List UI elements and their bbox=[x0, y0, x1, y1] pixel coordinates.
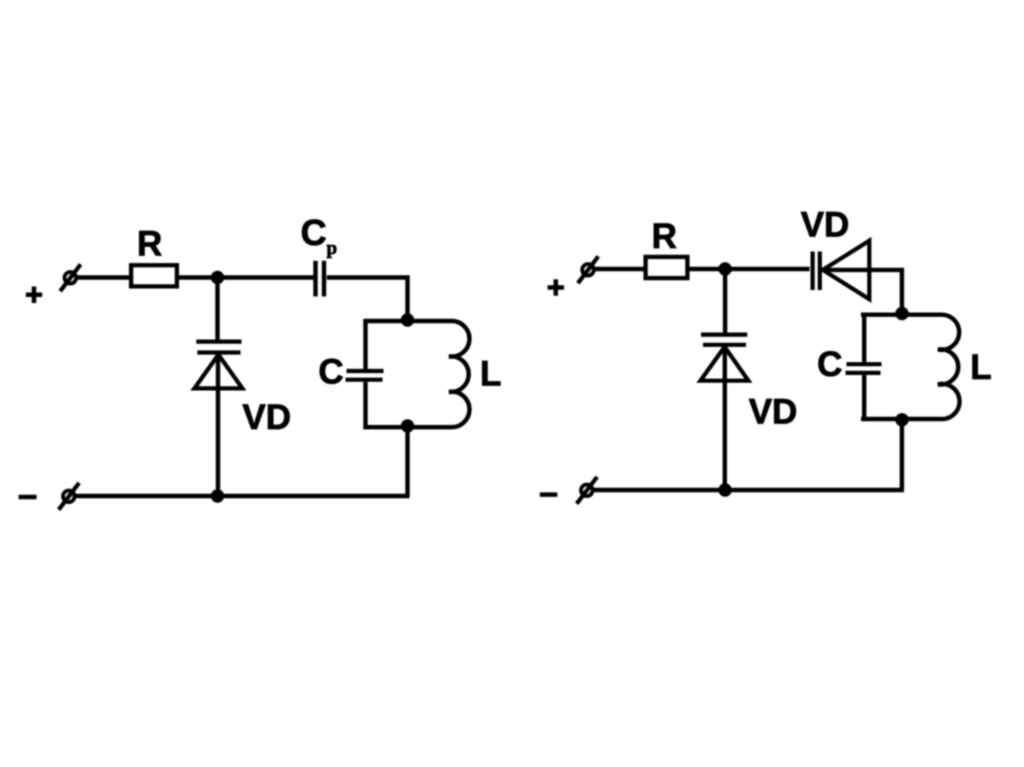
tank top wire (right) bbox=[861, 313, 941, 317]
svg-text:p: p bbox=[327, 238, 338, 259]
wire tank bottom to rail bbox=[405, 427, 409, 496]
varicap VD branch top wire (right) bbox=[723, 269, 727, 335]
tank bottom wire bbox=[364, 425, 452, 429]
capacitor C branch wire lower bbox=[363, 382, 367, 430]
junction node dot (top left) bbox=[211, 271, 224, 284]
plus terminal label + bbox=[26, 287, 42, 304]
input terminal (+) circle with slash bbox=[60, 264, 80, 291]
capacitor C branch wire upper bbox=[363, 319, 367, 369]
capacitor C plates (right) bbox=[846, 364, 882, 373]
bottom rail junction dot (right) bbox=[718, 483, 731, 496]
svg-text:VD: VD bbox=[801, 206, 850, 245]
output terminal (-) circle with slash (right) bbox=[577, 477, 597, 504]
wire resistor to Cp bbox=[179, 275, 314, 279]
bottom rail wire bbox=[76, 494, 410, 498]
svg-text:VD: VD bbox=[749, 393, 798, 432]
label Cp bbox=[301, 212, 337, 259]
tank bottom wire (right) bbox=[861, 417, 941, 421]
svg-text:L: L bbox=[480, 354, 501, 393]
capacitor C branch upper (right) bbox=[862, 313, 866, 363]
series varicap VD plates bbox=[813, 252, 820, 291]
svg-text:C: C bbox=[301, 212, 327, 253]
capacitor C branch lower (right) bbox=[862, 375, 866, 421]
varicap VD triangle (right) bbox=[700, 347, 748, 381]
plus terminal label + (right) bbox=[548, 279, 564, 295]
wire terminal to resistor bbox=[76, 275, 132, 279]
minus terminal label - bbox=[19, 495, 37, 500]
wire terminal to resistor (right) bbox=[594, 267, 646, 271]
wire resistor to varicap (right) bbox=[690, 267, 810, 271]
junction node dot (right top) bbox=[718, 262, 731, 275]
input terminal (+) circle with slash (right) bbox=[578, 256, 598, 283]
svg-text:R: R bbox=[137, 224, 162, 263]
varicap VD cathode bars (right) bbox=[701, 335, 747, 345]
capacitor C plates bbox=[346, 371, 384, 380]
resistor R bbox=[131, 265, 177, 286]
varicap VD bottom wire (right) bbox=[723, 347, 727, 490]
tank top wire bbox=[364, 319, 452, 323]
bottom rail junction dot bbox=[211, 489, 224, 502]
bottom rail wire (right) bbox=[594, 488, 904, 492]
svg-text:VD: VD bbox=[242, 398, 291, 437]
varicap VD triangle bbox=[194, 355, 242, 389]
tank bottom node dot bbox=[401, 419, 414, 432]
svg-text:C: C bbox=[817, 345, 842, 384]
series varicap VD wire through bbox=[822, 270, 902, 316]
output terminal (-) circle with slash bbox=[59, 483, 79, 510]
tank bottom node dot (right) bbox=[895, 413, 908, 426]
wire tank bottom to rail (right) bbox=[900, 419, 904, 490]
tank top node dot bbox=[401, 313, 414, 326]
svg-text:L: L bbox=[970, 348, 991, 387]
varicap VD branch top wire bbox=[215, 278, 219, 342]
capacitor Cp plates bbox=[316, 261, 325, 297]
wire Cp to tank corner bbox=[327, 278, 408, 322]
minus terminal label - (right) bbox=[540, 492, 558, 497]
varicap VD cathode bars bbox=[196, 342, 241, 353]
svg-text:R: R bbox=[652, 217, 677, 256]
tank top node dot (right) bbox=[895, 307, 908, 320]
svg-text:C: C bbox=[318, 353, 343, 392]
series varicap VD triangle bbox=[823, 241, 870, 300]
varicap VD bottom wire bbox=[216, 355, 220, 496]
inductor L coil (right) bbox=[938, 315, 960, 419]
resistor R (right) bbox=[646, 257, 688, 278]
inductor L coil bbox=[449, 321, 469, 427]
